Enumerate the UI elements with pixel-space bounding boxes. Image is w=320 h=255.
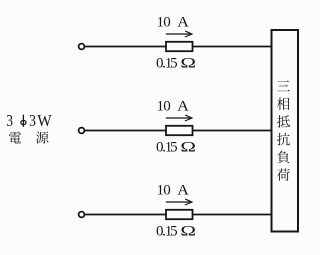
- svg-text:W: W: [37, 113, 52, 131]
- svg-text:Ω: Ω: [180, 222, 196, 238]
- svg-text:A: A: [177, 14, 189, 30]
- svg-text:Ω: Ω: [180, 54, 196, 70]
- svg-text:0.15: 0.15: [156, 55, 178, 71]
- svg-text:10: 10: [157, 98, 171, 114]
- svg-text:A: A: [177, 98, 189, 114]
- svg-text:3: 3: [29, 112, 36, 131]
- svg-text:Ω: Ω: [180, 138, 196, 154]
- svg-text:3: 3: [6, 112, 13, 131]
- svg-text:A: A: [177, 182, 189, 198]
- svg-text:0.15: 0.15: [156, 223, 178, 239]
- svg-text:10: 10: [157, 182, 171, 198]
- svg-text:10: 10: [157, 14, 171, 30]
- svg-text:0.15: 0.15: [156, 139, 178, 155]
